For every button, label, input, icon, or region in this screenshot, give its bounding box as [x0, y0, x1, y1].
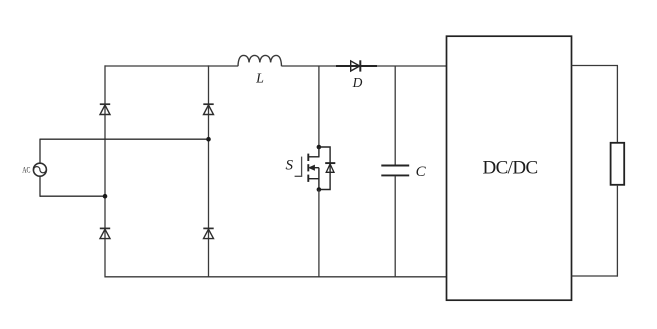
svg-text:DC/DC: DC/DC [482, 157, 537, 178]
svg-text:AC: AC [22, 166, 30, 175]
wire top bus left (rectifier output to inductor) [105, 65, 239, 67]
wire load branch upper [616, 66, 618, 144]
wire AC bottom [40, 195, 105, 197]
svg-text:C: C [416, 164, 427, 180]
node MOSFET source [317, 187, 322, 192]
resistor R (load) [611, 143, 625, 185]
node at AC bottom / left bridge leg [103, 194, 108, 199]
diode D4 (bridge bottom-right) [203, 228, 213, 238]
wire DC/DC output top [572, 65, 619, 67]
wire AC source vertical top [39, 139, 41, 164]
svg-text:S: S [285, 158, 293, 174]
svg-text:D: D [352, 75, 363, 90]
wire MOSFET branch lower [318, 190, 320, 278]
wire load branch lower [616, 185, 618, 277]
wire MOSFET branch upper [318, 66, 320, 147]
wire AC top [40, 138, 209, 140]
wire AC source vertical bottom [39, 176, 41, 197]
wire DC/DC output bottom [572, 275, 619, 277]
node MOSFET drain [317, 145, 322, 150]
wire bottom bus [105, 276, 447, 278]
diode D2 (bridge top-right) [203, 104, 213, 114]
node at AC top / right bridge leg [206, 137, 211, 142]
wire capacitor branch lower [394, 176, 396, 278]
capacitor C [381, 166, 409, 176]
wire right bridge leg [208, 65, 210, 277]
DC/DC converter block U1 [447, 36, 572, 300]
body diode of S [319, 147, 335, 190]
diode D1 (bridge top-left) [100, 104, 110, 114]
wire left bridge leg [104, 65, 106, 277]
diode D3 (bridge bottom-left) [100, 228, 110, 238]
inductor L [238, 55, 282, 66]
transistor S (MOSFET with body diode) [295, 147, 320, 190]
wire top bus right (diode D to DC/DC block) [377, 65, 447, 67]
AC source [33, 163, 46, 176]
wire capacitor branch upper [394, 66, 396, 165]
svg-text:L: L [255, 72, 264, 87]
wire diode D leads (bold) [336, 65, 377, 67]
diode D [351, 60, 361, 71]
wire top bus middle (inductor to diode D) [282, 65, 341, 67]
